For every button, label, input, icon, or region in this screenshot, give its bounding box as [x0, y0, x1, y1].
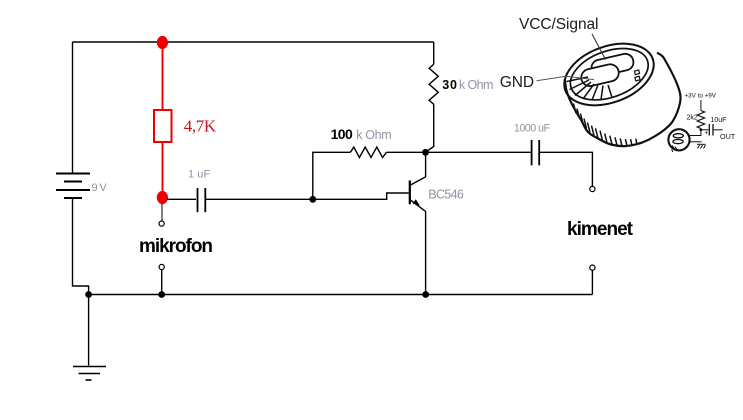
svg-text:+: + [704, 130, 708, 137]
svg-text:10uF: 10uF [711, 117, 727, 124]
svg-text:4,7K: 4,7K [184, 117, 217, 136]
transistor Q1 BC546 [410, 152, 426, 294]
wire base node to transistor base [313, 193, 409, 199]
wire C2 to kimenet terminal [540, 152, 592, 186]
mini circuit mic pad lower [673, 140, 683, 144]
svg-text:9 V: 9 V [92, 182, 108, 194]
svg-text:mikrofon: mikrofon [139, 236, 213, 257]
microphone sketch body hatching [574, 104, 638, 147]
svg-text:VCC/Signal: VCC/Signal [519, 16, 599, 33]
svg-text:+3V to +9V: +3V to +9V [685, 93, 717, 100]
junction dot bus mikrofon [158, 291, 165, 298]
svg-text:1 uF: 1 uF [188, 169, 210, 181]
wire C1 to base node [206, 198, 313, 200]
wire mikrofon minus to bus [161, 270, 163, 295]
microphone sketch pad upper [590, 52, 635, 78]
wire collector node to C2 [426, 151, 531, 153]
node dot red bottom [157, 191, 168, 204]
mini circuit resistor 2k2 [697, 111, 704, 129]
svg-text:1000 uF: 1000 uF [514, 123, 551, 135]
electret microphone sketch body outline [565, 53, 681, 146]
terminal circle mikrofon minus [159, 264, 164, 269]
mini circuit wire mic gnd pad [690, 141, 702, 143]
wire R2 to collector node [386, 151, 425, 153]
wire red supply branch upper [162, 42, 164, 110]
mini circuit wire to capacitor [701, 129, 709, 131]
capacitor C1 1uF [198, 188, 206, 212]
mini circuit mic symbol [668, 129, 689, 150]
wire mikrofon stub [161, 204, 163, 221]
resistor R3 30k [429, 64, 438, 104]
mini circuit wire capacitor to OUT [713, 129, 723, 131]
mini circuit capacitor 10uF [709, 124, 713, 136]
svg-text:30: 30 [442, 78, 457, 92]
microphone sketch top face rim [556, 32, 663, 116]
svg-text:BC546: BC546 [428, 188, 464, 202]
wire R3 to collector node [426, 104, 434, 152]
node dot base branch [309, 196, 316, 203]
wire red node to C1 [167, 198, 196, 200]
wire battery negative to bottom bus [73, 198, 89, 295]
mini circuit mic hatches [672, 146, 678, 153]
microphone sketch pad lower [580, 63, 621, 88]
svg-text:OUT: OUT [720, 132, 736, 141]
svg-text:k Ohm: k Ohm [356, 128, 391, 142]
wire top rail [73, 41, 434, 43]
junction dot bus emitter [422, 291, 429, 298]
ground [73, 295, 106, 381]
mini circuit ground [697, 144, 706, 148]
svg-text:100: 100 [331, 126, 353, 142]
terminal circle kimenet top [590, 186, 595, 191]
mini circuit wire mic vcc pad to junction [690, 130, 701, 136]
terminal circle mikrofon plus [159, 221, 164, 226]
wire red supply branch lower [162, 142, 164, 198]
annotation line VCC/Signal to pad [592, 34, 606, 60]
capacitor C2 1000uF [532, 140, 540, 165]
svg-text:GND: GND [500, 74, 534, 91]
node dot collector [422, 149, 429, 156]
wire kimenet bottom to bus [591, 270, 593, 294]
wire left from top rail to battery [72, 42, 74, 173]
microphone sketch spokes [567, 77, 613, 100]
mini circuit junction dot [700, 128, 703, 131]
mini circuit wire supply to resistor [700, 100, 702, 111]
bottom bus wire [89, 294, 593, 296]
svg-text:k Ohm: k Ohm [459, 78, 493, 92]
microphone sketch right face marks [634, 70, 640, 81]
svg-text:kimenet: kimenet [567, 219, 634, 240]
terminal circle kimenet bottom [590, 265, 595, 270]
wire base node up to R2 [313, 152, 351, 199]
battery B1 9V [56, 174, 90, 199]
resistor R2 100k [350, 147, 386, 157]
svg-text:2k2: 2k2 [687, 115, 698, 122]
annotation line GND to pad [537, 76, 595, 81]
microphone sketch inner face [563, 39, 655, 110]
wire top rail down to R3 [433, 42, 435, 64]
node dot red top [157, 36, 168, 49]
resistor R1 4,7K [154, 110, 172, 142]
mini circuit mic pad upper [673, 134, 683, 138]
junction dot bus left [85, 291, 92, 298]
